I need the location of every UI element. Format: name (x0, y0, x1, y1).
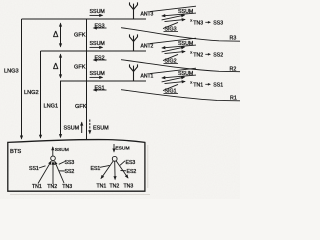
svg-text:TN1: TN1 (97, 184, 107, 190)
svg-text:ESUM: ESUM (115, 146, 129, 152)
svg-text:SSUM: SSUM (90, 9, 105, 15)
svg-text:ES2: ES2 (127, 169, 137, 175)
svg-text:SS2: SS2 (65, 169, 75, 175)
svg-text:SS1: SS1 (213, 83, 223, 89)
svg-text:ANT3: ANT3 (141, 11, 154, 17)
svg-text:GFK: GFK (74, 64, 86, 70)
svg-text:TN1: TN1 (32, 184, 42, 190)
svg-text:Δ: Δ (53, 30, 59, 39)
svg-text:ES3: ES3 (95, 23, 105, 29)
svg-text:SSUM: SSUM (55, 147, 69, 153)
svg-text:LNG2: LNG2 (24, 90, 39, 96)
svg-text:GFK: GFK (74, 32, 86, 38)
svg-text:SSUM: SSUM (178, 41, 193, 47)
svg-text:SS3: SS3 (65, 160, 75, 166)
svg-text:x: x (190, 50, 192, 55)
svg-text:SS2: SS2 (213, 53, 223, 59)
svg-text:SSUM: SSUM (178, 9, 193, 15)
svg-text:TN2: TN2 (193, 53, 203, 59)
svg-text:SS3: SS3 (213, 21, 223, 27)
svg-text:ES3: ES3 (126, 160, 136, 166)
svg-text:ES1: ES1 (95, 85, 105, 91)
svg-text:ANT2: ANT2 (141, 43, 154, 49)
svg-text:ESUM: ESUM (93, 125, 109, 131)
svg-text:TN1: TN1 (193, 83, 203, 89)
svg-text:LNG3: LNG3 (4, 69, 19, 75)
svg-text:TN2: TN2 (110, 184, 120, 190)
svg-text:TN3: TN3 (124, 184, 134, 190)
svg-text:SS1: SS1 (29, 166, 39, 172)
svg-text:ES1: ES1 (91, 166, 101, 172)
svg-text:SSUM: SSUM (90, 71, 105, 77)
svg-text:Δ: Δ (53, 62, 59, 71)
svg-text:SIG1: SIG1 (165, 89, 177, 95)
svg-text:BTS: BTS (10, 149, 21, 155)
svg-text:x: x (190, 18, 192, 23)
svg-text:SSUM: SSUM (64, 125, 80, 131)
svg-text:R2: R2 (230, 67, 237, 73)
svg-text:GFK: GFK (75, 104, 87, 110)
svg-text:TN2: TN2 (47, 184, 57, 190)
svg-text:R1: R1 (230, 96, 237, 102)
svg-text:SIG2: SIG2 (165, 59, 177, 65)
svg-text:TN3: TN3 (62, 184, 72, 190)
svg-text:LNG1: LNG1 (44, 104, 59, 110)
svg-text:x: x (190, 80, 192, 85)
svg-text:SSUM: SSUM (178, 71, 193, 77)
svg-text:R3: R3 (230, 36, 237, 42)
svg-text:ES2: ES2 (95, 55, 105, 61)
svg-text:ANT1: ANT1 (141, 73, 154, 79)
svg-text:SIG3: SIG3 (165, 27, 177, 33)
svg-text:TN3: TN3 (193, 21, 203, 27)
svg-text:SSUM: SSUM (90, 41, 105, 47)
